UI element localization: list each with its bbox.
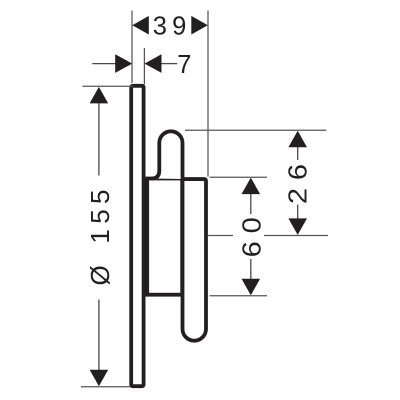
diameter 155 dimension line lower segment [98,300,100,371]
extension line right of 39 dimension [207,11,209,177]
extension line bottom of 26 dimension (centre axis), right segment [264,235,328,237]
dimension 7 arrow left [115,54,132,73]
dimension 60 line lower stub [250,259,252,279]
svg-text:60: 60 [237,209,266,257]
extension line top of diameter 155 [83,85,134,87]
diameter 155 dimension line upper segment [98,101,100,176]
extension line bottom of 26 dimension (centre axis), left segment [208,235,234,237]
extension line right of 7 dimension [143,48,145,85]
paddle handle profile [152,131,207,340]
extension line top of 26 dimension [185,129,326,131]
dimension 60 arrow up [242,178,261,195]
dimension 7 arrow right [145,54,162,73]
diameter 155 arrow down [90,370,109,387]
dimension 26 line upper stub [297,147,299,160]
svg-text:7: 7 [177,51,191,79]
dimension 39 arrow left [132,16,149,35]
diameter 155 arrow up [90,87,109,104]
dimension 39 arrow right [191,16,208,35]
wall plate (side view) [131,86,143,386]
extension line top of 60 dimension [210,176,268,178]
dimension 7 stub line right [162,63,178,65]
valve body sleeve [147,179,182,295]
dimension 26 line lower stub [297,205,299,220]
extension line bottom of diameter 155 [81,386,130,388]
svg-text:26: 26 [283,156,312,204]
dimension 26 arrow down [288,218,307,235]
extension line left of 39/7 dimension [131,11,133,84]
svg-text:39: 39 [153,12,192,40]
dimension 60 line upper stub [250,194,252,214]
svg-text:Ø155: Ø155 [85,189,115,285]
extension line bottom of 60 dimension [210,295,268,297]
dimension 26 arrow up [288,131,307,148]
dimension 7 stub line left [92,63,115,65]
dimension 60 arrow down [242,279,261,296]
